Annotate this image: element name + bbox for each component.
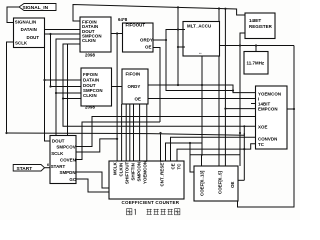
svg-text:↔: ↔: [198, 50, 202, 55]
svg-text:CE: CE: [171, 163, 176, 169]
wire MLT bottom to COEF top: [201, 56, 203, 143]
svg-text:SMPDN: SMPDN: [60, 170, 76, 175]
wire vertical to control DOUT: [45, 48, 51, 142]
svg-text:OE: OE: [135, 96, 141, 101]
wire SEBIT stub: [251, 103, 256, 105]
port flag SIGNAL_IN: [19, 4, 56, 12]
wire SMPCOV bus: [76, 117, 256, 147]
wire vertical x118 down to counter: [116, 34, 118, 162]
wire branch to FIFO2 DATAIN: [45, 79, 82, 81]
svg-text:6: 6: [47, 163, 49, 167]
svg-text:FIFOIN: FIFOIN: [83, 72, 98, 77]
wire right rail: [238, 46, 295, 208]
svg-text:CLKIN: CLKIN: [119, 163, 124, 177]
svg-text:ORDY: ORDY: [128, 84, 141, 89]
wire CE riser and CONVDN TC net: [171, 137, 256, 161]
wire ORDY2 to YOEMCON: [148, 85, 256, 93]
block U12 output interface: [256, 86, 288, 149]
svg-text:START: START: [51, 164, 66, 169]
svg-text:CONVDN: CONVDN: [258, 136, 277, 141]
svg-text:DATAIN: DATAIN: [83, 78, 99, 83]
svg-text:START: START: [17, 166, 33, 172]
wire COVEN bus: [76, 122, 160, 160]
svg-text:DATAIN: DATAIN: [21, 27, 37, 32]
block U7 FIFO2: [81, 68, 112, 106]
svg-text:SMPCOV: SMPCOV: [56, 144, 75, 149]
wire third rail: [67, 44, 69, 136]
wire CNT_RESET riser: [160, 133, 162, 161]
wire EMPCON pin: [225, 108, 255, 110]
wire FIFO2 DOUT to FIFOOUT2: [112, 86, 123, 88]
wire zigzag to COEF top: [166, 143, 203, 167]
block U11 coef latch: [194, 166, 238, 201]
wire tall block right pin stub: [287, 108, 294, 110]
wire GO: [76, 179, 109, 192]
svg-text:2098: 2098: [85, 53, 95, 58]
wire MLT pin2 from top rail branch: [177, 7, 179, 85]
wire top rail: [73, 5, 245, 22]
block U3 FIFOOUT1: [123, 23, 154, 53]
wire long horizontal XOE net: [7, 126, 245, 135]
wire START to control: [45, 167, 51, 169]
wire CLKIN rail: [63, 44, 256, 126]
wire ORDY1 to MLT pin1: [153, 30, 183, 41]
block U8 FIFOOUT2: [122, 69, 148, 104]
svg-text:MLT_ACCU: MLT_ACCU: [187, 23, 211, 28]
svg-text:REGISTER: REGISTER: [249, 24, 273, 29]
wire FIFOOUT2 bottom rails down to counter: [121, 104, 123, 161]
svg-text:SHIFTIN: SHIFTIN: [131, 163, 136, 180]
wire MLT right pin to right rail: [220, 45, 295, 47]
svg-text:OE: OE: [230, 182, 235, 188]
wire stub into 11.7MHz: [255, 46, 257, 52]
svg-text:XOE: XOE: [258, 124, 267, 129]
wire TC net: [177, 144, 256, 161]
wire SCLK left rail: [7, 42, 14, 133]
svg-text:GO: GO: [69, 177, 76, 182]
svg-text:64*8: 64*8: [118, 17, 128, 22]
svg-text:DOUT: DOUT: [27, 35, 40, 40]
svg-text:SCLK: SCLK: [51, 151, 64, 156]
wire DOUT: [45, 33, 81, 35]
svg-text:COVEN: COVEN: [60, 157, 76, 162]
svg-text:CNT_RESET: CNT_RESET: [160, 160, 165, 187]
caption figure: [127, 209, 180, 215]
svg-text:OE: OE: [145, 44, 151, 49]
svg-text:CLKIN: CLKIN: [82, 38, 96, 43]
svg-text:COEF[0..5]: COEF[0..5]: [218, 171, 223, 194]
wire DOUT branch down to FIFO2: [51, 34, 82, 87]
wire EMPCON vertical from register jog: [224, 9, 226, 166]
wire SMPDN: [76, 172, 109, 188]
svg-text:SHIFTOUT: SHIFTOUT: [125, 161, 130, 184]
svg-text:EMPCON: EMPCON: [258, 106, 278, 111]
svg-text:SMPCON: SMPCON: [137, 162, 142, 182]
svg-text:TC: TC: [177, 163, 182, 170]
wire OE2 to I pin: [148, 98, 256, 100]
wire COEF left pin: [190, 143, 194, 172]
block U4 MLT_ACCU: [183, 22, 220, 57]
wire FIFO1 DOUT to FIFOOUT1: [111, 33, 123, 35]
wire mid link: [166, 40, 233, 91]
port flag START: [13, 163, 49, 172]
svg-text:TC: TC: [258, 142, 265, 147]
svg-text:14BIT: 14BIT: [249, 18, 261, 23]
wire SMPCON rail: [56, 39, 80, 136]
svg-text:SIGNALIN: SIGNALIN: [15, 20, 36, 25]
svg-text:FIFOIN: FIFOIN: [126, 71, 141, 76]
svg-text:COEFFICIENT COUNTER: COEFFICIENT COUNTER: [122, 200, 180, 205]
block U6 oscillator 11.7MHz: [244, 52, 268, 75]
svg-text:DOUT: DOUT: [52, 138, 65, 143]
block U2 FIFO1: [80, 17, 111, 52]
wire flag to SIGNALIN block: [7, 7, 19, 23]
svg-text:YOEMCON: YOEMCON: [143, 161, 148, 184]
wire OE riser to COEF: [243, 133, 245, 180]
block U1 SIGNALIN: [14, 18, 45, 48]
wire OE1 down: [153, 48, 160, 123]
svg-text:2098: 2098: [85, 104, 95, 109]
block U5 14BIT REGISTER: [245, 13, 275, 39]
wire top rail to MLT top corner: [218, 9, 220, 22]
svg-text:COEF[0..13]: COEF[0..13]: [200, 170, 205, 196]
svg-text:YOEMCON: YOEMCON: [258, 91, 281, 96]
wire register tap: [240, 33, 245, 166]
svg-text:ORDY: ORDY: [140, 38, 153, 43]
svg-text:CLKIN: CLKIN: [83, 93, 97, 98]
block U10 coefficient counter: [109, 160, 184, 199]
wire MLT right corner down to COEF: [218, 56, 220, 166]
wire DATAIN: [45, 29, 81, 31]
svg-text:11.7MHz: 11.7MHz: [247, 61, 265, 66]
wire horizontal y155: [190, 154, 240, 156]
svg-text:FIFOOUT: FIFOOUT: [126, 23, 146, 28]
block U9 control: [50, 136, 77, 184]
svg-text:SIGNAL_IN: SIGNAL_IN: [23, 5, 49, 11]
svg-text:SCLK: SCLK: [15, 40, 28, 45]
svg-text:MCLK: MCLK: [113, 161, 118, 175]
